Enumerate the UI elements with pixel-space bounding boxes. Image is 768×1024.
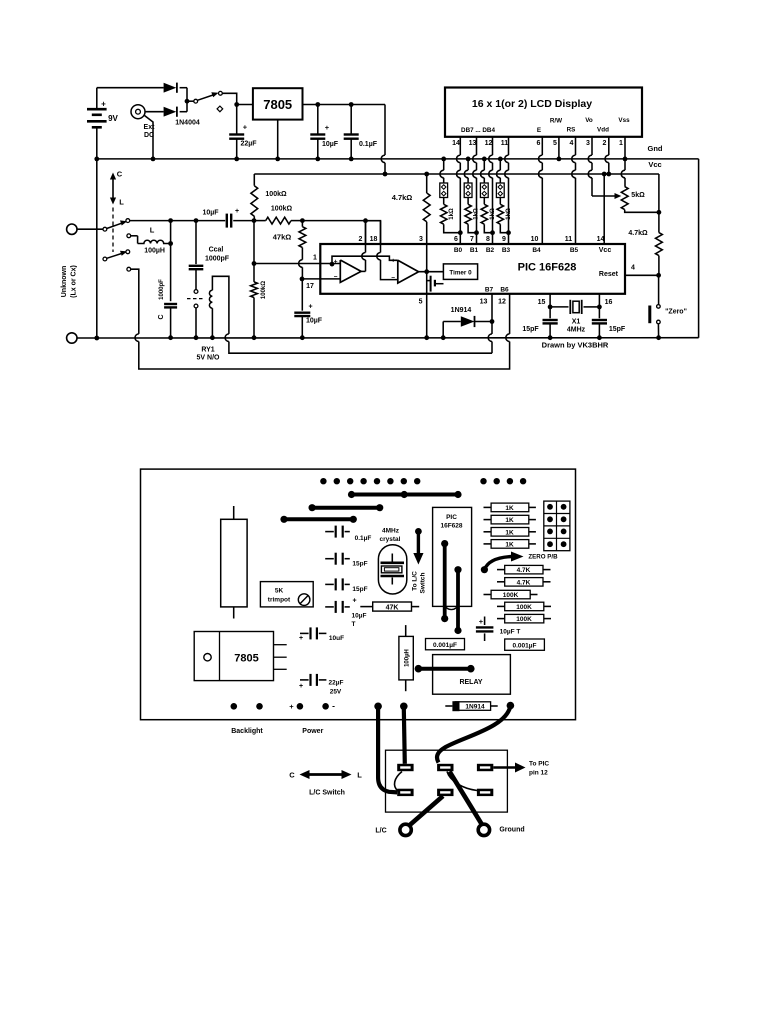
- relay RY1 coil: [209, 290, 212, 308]
- wire pin2 feedback to C1 output: [365, 221, 367, 253]
- potentiometer 5k contrast: [621, 187, 628, 210]
- PCB resistor 100K a: [484, 594, 492, 596]
- PCB resistor 4.7K a: [497, 569, 505, 571]
- PCB capacitor 0.001uF left: [426, 639, 465, 650]
- svg-text:"Zero": "Zero": [665, 309, 687, 316]
- pushbutton Zero: [658, 275, 660, 304]
- wire PIC pin4 reset: [625, 274, 659, 276]
- svg-text:1kΩ: 1kΩ: [506, 208, 512, 220]
- svg-text:B5: B5: [570, 247, 579, 254]
- crystal X1 4MHz circuit: [549, 294, 551, 307]
- wire LCD Vo line to pot wiper: [591, 137, 593, 155]
- svg-text:pin 12: pin 12: [529, 770, 548, 777]
- svg-text:11: 11: [565, 236, 573, 243]
- wire C1 plus input (pin1): [254, 263, 340, 265]
- wire pin13 up (hops gnd line): [491, 342, 493, 354]
- switch C-L direction arrow: [308, 773, 343, 776]
- svg-text:22µF: 22µF: [240, 141, 257, 148]
- svg-text:1N914: 1N914: [451, 307, 472, 314]
- relay RY1 contact: [194, 290, 198, 294]
- wire LCD Vss to gnd rail, down to pot top: [624, 137, 626, 159]
- wire C1 minus input (pin17): [302, 278, 340, 280]
- PCB trace T3: [284, 517, 353, 521]
- wire LCD data line x=508.5: [508, 137, 510, 155]
- svg-text:9: 9: [502, 236, 506, 243]
- vcc rail: [254, 173, 659, 175]
- svg-text:+: +: [101, 100, 106, 109]
- svg-text:100µH: 100µH: [405, 649, 411, 667]
- svg-text:Backlight: Backlight: [231, 728, 263, 735]
- gnd rail right drop wire: [698, 159, 700, 338]
- svg-text:RS: RS: [567, 127, 576, 134]
- capacitor C 1000pF: [164, 303, 177, 305]
- svg-text:Reset: Reset: [599, 271, 619, 278]
- svg-text:PIC 16F628: PIC 16F628: [518, 262, 577, 274]
- PCB diode 1N914: [445, 705, 452, 707]
- jumper JP2: [467, 159, 469, 170]
- PCB pad dot row: [320, 478, 326, 484]
- svg-text:47kΩ: 47kΩ: [273, 233, 292, 242]
- svg-text:trimpot: trimpot: [268, 597, 291, 604]
- svg-text:12: 12: [485, 140, 493, 147]
- wire L junction vertical: [170, 221, 172, 302]
- PCB relay body: [433, 655, 511, 695]
- wire relay coil to pin13 line: [212, 276, 229, 334]
- svg-text:100K: 100K: [503, 592, 519, 599]
- PCB bottom pads: [231, 703, 238, 710]
- svg-text:100K: 100K: [516, 616, 532, 623]
- svg-text:Timer 0: Timer 0: [449, 270, 472, 277]
- svg-text:5: 5: [419, 299, 423, 306]
- svg-text:1K: 1K: [505, 542, 514, 549]
- connector Ext DC jack: [131, 105, 145, 119]
- svg-text:R/W: R/W: [550, 118, 562, 125]
- svg-text:B1: B1: [470, 247, 479, 254]
- svg-text:22µF: 22µF: [329, 680, 344, 687]
- svg-text:+: +: [299, 683, 303, 690]
- capacitor 22uF: [236, 105, 238, 135]
- block Timer 0: [443, 264, 477, 280]
- capacitor 0.1uF: [350, 105, 352, 135]
- PCB capacitor 10uF (power): [300, 632, 309, 634]
- diode D2 1N4004 (ext dc): [164, 107, 177, 117]
- PCB capacitor 15pF a: [325, 558, 334, 560]
- svg-text:B4: B4: [532, 247, 541, 254]
- svg-text:7805: 7805: [263, 97, 292, 112]
- wire diode cathodes join: [180, 87, 187, 89]
- svg-text:Power: Power: [302, 728, 323, 735]
- PCB capacitor 0.1uF: [325, 531, 334, 533]
- wire thick C relay pad to top-middle pad: [437, 706, 510, 763]
- wire pot bottom to vcc corner: [625, 210, 659, 213]
- svg-text:1: 1: [619, 140, 623, 147]
- svg-text:L/C: L/C: [375, 828, 386, 835]
- svg-text:4.7kΩ: 4.7kΩ: [392, 193, 413, 202]
- capacitor 10uF series (input): [226, 214, 228, 228]
- svg-text:1kΩ: 1kΩ: [474, 208, 480, 220]
- svg-text:11: 11: [501, 140, 509, 147]
- PCB trimpot 5K: [260, 582, 313, 607]
- svg-text:4: 4: [570, 140, 574, 147]
- svg-text:C: C: [289, 771, 295, 780]
- svg-text:To L/C: To L/C: [412, 571, 419, 591]
- svg-text:L: L: [357, 771, 362, 780]
- svg-text:E: E: [537, 127, 541, 134]
- svg-text:Unknown: Unknown: [61, 266, 68, 298]
- svg-text:4MHz: 4MHz: [382, 528, 400, 535]
- PCB IC PIC 16F628 body: [433, 507, 472, 606]
- svg-text:47K: 47K: [386, 605, 399, 612]
- wire LCD E line to PIC B4: [541, 137, 543, 155]
- capacitor 15pF left: [549, 307, 551, 318]
- svg-text:7805: 7805: [234, 653, 258, 665]
- wire main oscillator line: [130, 220, 226, 222]
- svg-text:4MHz: 4MHz: [567, 327, 586, 334]
- svg-text:4.7kΩ: 4.7kΩ: [628, 230, 648, 237]
- svg-text:16F628: 16F628: [440, 523, 462, 530]
- svg-text:T: T: [352, 621, 356, 628]
- svg-text:L: L: [150, 226, 155, 235]
- svg-text:Vss: Vss: [618, 117, 630, 124]
- svg-text:-: -: [332, 701, 335, 711]
- wire Vcc feed down (hops gnd rail): [384, 105, 386, 156]
- capacitor 10uF (pin17): [294, 312, 310, 314]
- resistor 4.7k reset pullup: [658, 212, 660, 232]
- IC U2 PIC 16F628: [320, 244, 625, 294]
- svg-text:5K: 5K: [275, 588, 284, 595]
- svg-text:+: +: [289, 702, 294, 711]
- wire PIC pin3-pin5 internal vertical: [426, 244, 428, 338]
- wire node down to pin1: [253, 221, 255, 264]
- svg-text:RELAY: RELAY: [459, 679, 482, 686]
- resistor R2 1k: [467, 198, 469, 205]
- svg-text:4: 4: [631, 265, 635, 272]
- PCB regulator 7805 package: [194, 632, 273, 681]
- terminal Ground ring: [478, 824, 489, 835]
- svg-text:B0: B0: [454, 247, 463, 254]
- capacitor 15pF right: [598, 307, 600, 318]
- svg-text:100µH: 100µH: [144, 248, 165, 255]
- svg-text:B3: B3: [502, 247, 511, 254]
- svg-text:C: C: [158, 314, 165, 319]
- PCB zero pushbutton arrow: [484, 557, 512, 570]
- svg-text:4.7K: 4.7K: [517, 579, 531, 586]
- resistor R3 1k: [483, 198, 485, 205]
- svg-text:Ccal: Ccal: [209, 247, 224, 254]
- svg-text:100kΩ: 100kΩ: [265, 191, 287, 198]
- svg-text:ZERO P/B: ZERO P/B: [528, 554, 558, 561]
- svg-text:15pF: 15pF: [352, 561, 367, 568]
- terminal J1 (unknown top): [67, 224, 77, 234]
- svg-text:Ground: Ground: [499, 827, 524, 834]
- switch pads: [397, 764, 413, 771]
- svg-text:6: 6: [454, 236, 458, 243]
- svg-text:12: 12: [498, 299, 506, 306]
- resistor 100k (node to gnd): [253, 264, 255, 282]
- wire LCD data line x=460.3: [459, 137, 461, 155]
- svg-text:10µF: 10µF: [202, 210, 219, 217]
- capacitor Ccal 1000pF: [195, 221, 197, 265]
- svg-text:5kΩ: 5kΩ: [631, 192, 645, 199]
- wire pin12 line to L/C switch: [131, 269, 139, 334]
- svg-text:15pF: 15pF: [609, 326, 626, 333]
- resistor 47k: [301, 221, 303, 227]
- svg-text:L/C Switch: L/C Switch: [309, 790, 345, 797]
- resistor R1 1k: [443, 198, 445, 205]
- crystal X1 symbol: [569, 300, 571, 314]
- svg-text:B2: B2: [486, 247, 495, 254]
- resistor 4.7k on PIC pin 3: [424, 172, 429, 177]
- jumper JP4: [499, 159, 501, 170]
- PCB inductor 100uH: [405, 625, 407, 636]
- svg-text:4.7K: 4.7K: [517, 567, 531, 574]
- PCB trace T2: [312, 506, 380, 510]
- wire thick A power pad to bottom-left pad: [378, 708, 397, 792]
- comparator C1: [340, 260, 361, 282]
- PCB resistor 47K: [360, 606, 372, 608]
- svg-text:0.1µF: 0.1µF: [359, 141, 378, 148]
- wire 7805 output: [303, 104, 386, 106]
- svg-text:5: 5: [553, 140, 557, 147]
- wire thick B power pad to top-left pad: [404, 708, 405, 764]
- PCB capacitor 15pF b: [325, 583, 334, 585]
- svg-text:B7: B7: [485, 287, 494, 294]
- svg-text:To PIC: To PIC: [529, 761, 549, 768]
- svg-text:+: +: [479, 617, 484, 626]
- terminal J2 (unknown bottom): [67, 333, 77, 343]
- PCB capacitor 10uF T: [325, 606, 334, 608]
- svg-text:B6: B6: [500, 287, 509, 294]
- svg-text:15pF: 15pF: [522, 326, 539, 333]
- svg-text:17: 17: [306, 283, 314, 290]
- svg-text:1kΩ: 1kΩ: [449, 208, 455, 220]
- svg-text:+: +: [299, 635, 303, 642]
- svg-text:10µF: 10µF: [352, 613, 367, 620]
- inductor L 100uH: [131, 235, 138, 237]
- PCB PIC trace right: [456, 570, 460, 631]
- svg-text:14: 14: [597, 236, 605, 243]
- wire PIC pin14 vcc: [603, 174, 605, 244]
- PCB header 2x4: [544, 501, 570, 551]
- wire pin18 to C2 minus: [380, 221, 382, 253]
- svg-text:5V N/O: 5V N/O: [197, 355, 221, 362]
- wire LCD data line x=476.5: [476, 137, 478, 155]
- switch power on-off: [187, 100, 194, 102]
- svg-text:RY1: RY1: [201, 347, 214, 354]
- svg-text:DC: DC: [144, 132, 154, 139]
- svg-text:Vcc: Vcc: [599, 247, 612, 254]
- switch C/L direction arrow: [112, 178, 114, 201]
- svg-text:0.1µF: 0.1µF: [355, 535, 372, 542]
- svg-text:14: 14: [452, 140, 460, 147]
- svg-text:Vo: Vo: [585, 117, 593, 124]
- trace thin top-left to bottom-left pad: [395, 772, 402, 792]
- terminal L/C ring: [400, 824, 411, 835]
- svg-text:Gnd: Gnd: [648, 144, 663, 153]
- PCB resistor 4.7K b: [497, 581, 505, 583]
- switch gang dashed link: [112, 208, 114, 253]
- svg-text:Vcc: Vcc: [648, 160, 661, 169]
- svg-text:1K: 1K: [505, 505, 514, 512]
- trace thin top-middle to bottom-right pad: [447, 772, 477, 791]
- svg-text:1K: 1K: [505, 517, 514, 524]
- wire gnd rail to bottom common: [96, 159, 98, 338]
- svg-text:13: 13: [480, 299, 488, 306]
- arrow to PIC pin 12: [493, 766, 516, 769]
- svg-text:1K: 1K: [505, 529, 514, 536]
- svg-text:2: 2: [603, 140, 607, 147]
- wire comp inputs common (pin1 node): [332, 256, 398, 264]
- svg-text:Switch: Switch: [420, 572, 427, 593]
- svg-text:100kΩ: 100kΩ: [271, 206, 293, 213]
- svg-text:16 x 1(or 2) LCD Display: 16 x 1(or 2) LCD Display: [472, 98, 592, 110]
- svg-text:6: 6: [537, 140, 541, 147]
- svg-text:15: 15: [538, 299, 546, 306]
- wire 7805 gnd: [277, 120, 279, 159]
- comparator C2: [398, 260, 419, 283]
- gnd rail: [97, 158, 699, 160]
- svg-text:1: 1: [313, 255, 317, 262]
- PCB resistor 100K c: [497, 618, 505, 620]
- svg-text:+: +: [352, 598, 356, 605]
- wire 47k to pin17 (hops pin1 wire): [301, 248, 303, 260]
- svg-text:13: 13: [469, 140, 477, 147]
- svg-text:1N914: 1N914: [465, 704, 485, 711]
- svg-text:PIC: PIC: [446, 514, 457, 521]
- PCB capacitor 0.001uF right: [505, 639, 545, 650]
- battery 9V: [96, 88, 98, 109]
- PCB PIC trace arc: [445, 604, 458, 610]
- svg-text:8: 8: [486, 236, 490, 243]
- svg-text:10uF: 10uF: [329, 635, 344, 642]
- svg-text:9V: 9V: [108, 114, 118, 123]
- svg-text:3: 3: [419, 236, 423, 243]
- svg-text:1000pF: 1000pF: [159, 279, 165, 300]
- switch S1b (L/C select lower): [103, 257, 107, 261]
- PCB resistor 100K b: [497, 605, 505, 607]
- wire battery top to diodes: [97, 87, 164, 89]
- switch S1a (L/C select upper): [103, 227, 107, 231]
- wire thick E to L/C terminal: [408, 796, 444, 827]
- svg-text:+: +: [235, 208, 239, 215]
- PCB PIC trace left: [443, 544, 447, 619]
- diode 1N914: [442, 322, 444, 338]
- wire C2 output to Timer0: [419, 271, 444, 273]
- resistor 100k (vcc to node): [253, 174, 255, 186]
- svg-text:25V: 25V: [330, 689, 342, 696]
- PCB trace T1: [352, 493, 459, 497]
- jumper JP1: [443, 159, 445, 170]
- svg-text:10µF: 10µF: [306, 318, 323, 325]
- wire common ground line: [97, 337, 699, 339]
- regulator U1 7805: [253, 88, 303, 119]
- svg-text:C: C: [117, 170, 123, 179]
- svg-text:0.001µF: 0.001µF: [513, 643, 537, 650]
- diode D1 1N4004 (battery): [164, 83, 177, 93]
- svg-text:7: 7: [470, 236, 474, 243]
- PCB electrolytic capacitor body: [221, 519, 247, 607]
- svg-text:1N4004: 1N4004: [175, 120, 200, 127]
- switch wiring box: [386, 750, 508, 812]
- wire vcc rail right end down: [658, 174, 660, 212]
- svg-text:10: 10: [531, 236, 539, 243]
- PCB board outline: [141, 469, 576, 720]
- wire LCD R/W to gnd: [558, 137, 560, 159]
- svg-text:(Lx or Cx): (Lx or Cx): [71, 265, 78, 298]
- wire switch to regulator: [222, 93, 253, 104]
- wire pin17 node down to 10uF: [301, 279, 303, 311]
- svg-text:0.001µF: 0.001µF: [433, 642, 457, 649]
- svg-text:10µF: 10µF: [322, 141, 339, 148]
- wire main line to pin2/18: [302, 220, 365, 222]
- svg-text:Vdd: Vdd: [597, 127, 609, 134]
- svg-text:1kΩ: 1kΩ: [490, 208, 496, 220]
- svg-text:DB7 ... DB4: DB7 ... DB4: [461, 127, 495, 134]
- svg-text:Ext: Ext: [144, 124, 156, 131]
- svg-text:X1: X1: [572, 319, 581, 326]
- PCB resistors 1K x4: [484, 506, 492, 508]
- svg-text:+: +: [391, 258, 395, 265]
- PCB arrow to L/C switch: [415, 528, 422, 535]
- svg-text:100K: 100K: [516, 604, 532, 611]
- svg-text:L: L: [119, 198, 124, 207]
- wire LCD Vdd to vcc rail: [608, 137, 610, 155]
- wire LCD RS line to PIC B5: [575, 137, 577, 155]
- capacitor 10uF (reg out): [317, 105, 319, 135]
- svg-text:10µF T: 10µF T: [500, 629, 521, 636]
- PCB capacitor 22uF 25V: [300, 679, 309, 681]
- svg-text:18: 18: [370, 236, 378, 243]
- svg-text:1000pF: 1000pF: [205, 256, 230, 263]
- svg-text:2: 2: [359, 236, 363, 243]
- svg-text:100kΩ: 100kΩ: [261, 281, 267, 299]
- jumper JP3: [483, 159, 485, 170]
- wire LCD data line x=492.5: [492, 137, 494, 155]
- svg-text:15pF: 15pF: [352, 586, 367, 593]
- svg-text:+: +: [325, 123, 330, 132]
- svg-text:+: +: [308, 303, 312, 310]
- PCB relay trace: [418, 667, 470, 671]
- LCD module 16x1 display: [445, 88, 642, 137]
- svg-text:16: 16: [605, 299, 613, 306]
- svg-text:+: +: [243, 122, 248, 131]
- svg-text:crystal: crystal: [380, 536, 401, 543]
- svg-text:3: 3: [586, 140, 590, 147]
- transistor Q1 (internal mosfet): [427, 280, 431, 282]
- svg-text:Drawn by VK3BHR: Drawn by VK3BHR: [542, 341, 609, 350]
- resistor R4 1k: [499, 198, 501, 205]
- wire thick F to Ground terminal: [450, 772, 483, 826]
